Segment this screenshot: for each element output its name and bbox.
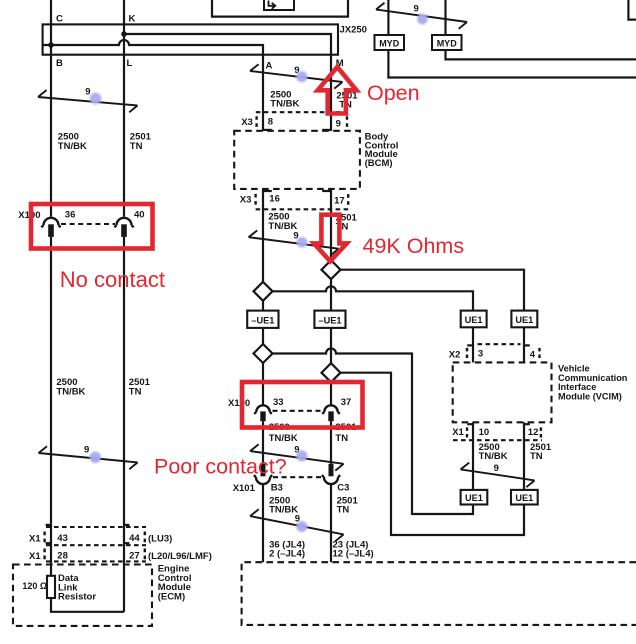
connector strip X3 (BCM bottom) dashed line	[256, 208, 349, 210]
svg-text:Resistor: Resistor	[58, 592, 96, 603]
strip X3 top left edge dashes	[255, 116, 257, 127]
strip X2 right edge dashes	[538, 348, 540, 358]
splice diamond 2500 upper	[254, 282, 273, 301]
svg-text:28: 28	[57, 551, 68, 562]
wire to MYD connector 2	[444, 0, 446, 35]
svg-text:B: B	[56, 58, 63, 69]
wire 2500 diamond to X100-33	[262, 363, 264, 405]
wire 2500 VCIM X1-10 down to UE1	[472, 422, 474, 490]
svg-text:MYD: MYD	[379, 38, 400, 48]
wire M (2501 TN middle) BCM X3 pin 9 foot	[322, 129, 331, 131]
connector X101 pin B3 (male terminal)	[261, 464, 266, 477]
svg-text:(BCM): (BCM)	[365, 158, 393, 169]
svg-text:37: 37	[341, 397, 352, 408]
module ECM dashed box (middle/bottom)	[242, 562, 636, 625]
svg-text:No contact: No contact	[60, 267, 165, 292]
pin foot 27	[124, 542, 129, 544]
wire from MYD 2 to right edge	[446, 50, 636, 59]
connector X100 pin 37 (female arc)	[322, 405, 340, 414]
pin foot X2-3	[467, 344, 473, 346]
dashed mating line X101 B3-C3	[273, 476, 321, 478]
svg-text:TN/BK: TN/BK	[56, 386, 85, 397]
connector strip X3 (BCM top) dashed line	[256, 111, 347, 113]
wire C/B (2500 TN/BK left, lower run)	[50, 237, 52, 576]
svg-text:43: 43	[57, 533, 68, 544]
svg-text:17: 17	[334, 195, 345, 206]
svg-text:X101: X101	[233, 483, 256, 494]
wire to MYD connector 1	[387, 0, 389, 35]
2500 branch to UE1 / VCIM X2-3 (hops wire M)	[273, 286, 474, 310]
svg-text:X3: X3	[240, 194, 252, 205]
module BCM dashed box	[234, 131, 360, 189]
svg-text:16: 16	[269, 194, 280, 205]
wire 2500 UE1 to VCIM X2-3	[472, 327, 474, 362]
svg-text:C3: C3	[337, 483, 349, 494]
svg-text:3: 3	[478, 349, 483, 360]
wire 2500 X101-B3 to ECM	[262, 484, 264, 562]
pin foot X1-10	[467, 423, 473, 425]
svg-text:L: L	[127, 58, 133, 69]
strip X1 (VCIM) right edge dashes	[540, 427, 542, 437]
wire from MYD 1 to right edge	[388, 50, 636, 78]
connector X100 pin 33 (male terminal)	[260, 411, 265, 421]
svg-text:TN/BK: TN/BK	[270, 99, 299, 110]
twisted pair symbol (middle pair, above ECM)	[250, 509, 344, 541]
wire 2500 diamond to -UE1	[262, 301, 264, 311]
svg-text:TN/BK: TN/BK	[58, 141, 87, 152]
svg-text:9: 9	[414, 4, 419, 15]
wire 2501 X101-C3 to ECM	[330, 484, 332, 562]
splice diamond 2500 lower	[254, 344, 273, 363]
splice diamond 2501 upper	[322, 260, 341, 279]
connector UE1 (2501, lower) box	[511, 490, 538, 505]
svg-text:TN: TN	[337, 505, 350, 516]
connector strip X1 row 43/44 top dashed line	[46, 526, 146, 528]
highlight dot (middle pair above X101)	[295, 449, 308, 462]
svg-text:X100: X100	[228, 398, 250, 409]
wire 2501 diamond to -UE1	[330, 279, 332, 310]
junction dot wire L / upper bar	[121, 31, 127, 37]
svg-text:X1: X1	[29, 534, 41, 545]
connector X100 pin 40 (male terminal)	[121, 224, 127, 237]
connector MYD 1 box	[375, 35, 405, 50]
svg-text:K: K	[129, 14, 136, 25]
svg-text:12: 12	[528, 427, 539, 438]
top box inner arrow mark	[269, 1, 276, 9]
wire 2501 below -UE1	[330, 328, 332, 363]
twisted pair symbol (middle pair, below BCM)	[249, 230, 339, 255]
connector strip X1 row 28/27 middle dashed line	[46, 544, 146, 546]
svg-text:UE1: UE1	[515, 493, 533, 503]
svg-text:49K Ohms: 49K Ohms	[363, 234, 465, 258]
top right box corner (cut off)	[628, 0, 636, 20]
wire K/L (2501 TN left, lower run)	[123, 237, 125, 612]
highlight dot (left lower pair)	[89, 451, 102, 464]
svg-text:4: 4	[530, 349, 536, 360]
svg-text:8: 8	[268, 117, 273, 128]
wire 2501 VCIM X1-12 down to UE1	[523, 422, 525, 490]
svg-text:Open: Open	[367, 81, 420, 105]
pin foot 17	[322, 190, 331, 192]
svg-text:TN: TN	[530, 451, 543, 462]
svg-text:X3: X3	[241, 117, 253, 128]
ECM box (left, with data link resistor)	[13, 565, 152, 626]
connector X100 pin 37 (male terminal)	[328, 411, 333, 421]
2500 branch to VCIM X1-10 loop (hops wire 2501)	[273, 349, 474, 514]
2501 branch to UE1 / VCIM X2-4	[341, 270, 525, 311]
wire A (2500 TN/BK middle) BCM X3 pin 8 foot	[263, 129, 272, 131]
twisted pair symbol (MYD wires)	[376, 3, 467, 29]
svg-text:TN/BK: TN/BK	[479, 451, 508, 462]
twisted pair symbol (middle pair, upper)	[250, 64, 343, 88]
dashed mating line X100 36-40	[61, 223, 115, 225]
svg-text:B3: B3	[271, 483, 283, 494]
connector strip X2 dashed line	[478, 343, 521, 345]
splice pack JX250 outline	[43, 24, 338, 54]
svg-text:UE1: UE1	[465, 315, 483, 325]
pin foot X2-4	[524, 344, 530, 346]
JX250 lower bus bar (2500) continuing down as wire A	[43, 40, 263, 131]
svg-text:A: A	[266, 61, 273, 72]
svg-text:Poor contact?: Poor contact?	[154, 454, 287, 478]
svg-text:9: 9	[336, 119, 341, 130]
pin foot 28	[46, 542, 51, 544]
svg-text:2 (–JL4): 2 (–JL4)	[269, 548, 305, 559]
svg-text:(ECM): (ECM)	[158, 592, 185, 603]
pin foot 43	[46, 524, 51, 526]
strip X2 left edge dashes	[466, 348, 468, 358]
JX250 upper bus bar (2501) continuing down as wire M	[124, 34, 331, 131]
highlight dot (MYD pair)	[416, 13, 428, 25]
connector strip X1 (VCIM) dashed line	[453, 439, 542, 441]
wire 2501 UE1 to VCIM X2-4	[523, 327, 525, 362]
pin foot 44	[124, 524, 129, 526]
dashed mating line X100 33-37	[273, 410, 323, 412]
connector UE1 (2500, upper) box	[461, 311, 487, 328]
svg-text:120 Ω: 120 Ω	[22, 581, 47, 591]
annotation red up arrow (open)	[318, 67, 357, 114]
strip X1 right edge dashes	[144, 532, 146, 560]
svg-text:(L20/L96/LMF): (L20/L96/LMF)	[148, 551, 212, 562]
svg-text:36: 36	[65, 209, 76, 220]
wire 2501 diamond to X100-37	[330, 382, 332, 405]
svg-text:X2: X2	[449, 349, 461, 360]
svg-text:44: 44	[129, 533, 140, 544]
strip X1 (VCIM) left edge dashes	[466, 427, 468, 437]
svg-text:9: 9	[84, 444, 89, 455]
svg-text:TN: TN	[335, 433, 348, 444]
strip X3 top right edge dashes	[346, 116, 348, 127]
svg-text:JX250: JX250	[340, 25, 367, 36]
wire 2500 from BCM X3 pin 16 down to splice diamond	[262, 189, 264, 282]
connector strip X1 row 28/27 bottom dashed line	[46, 560, 146, 562]
connector MYD 2 box	[432, 35, 462, 50]
wire 2500 left through data link resistor to loop bottom	[51, 598, 124, 612]
connector X100 pin 36 (female arc)	[41, 218, 60, 227]
connector X100 pin 33 (female arc)	[254, 405, 272, 414]
svg-text:UE1: UE1	[465, 493, 483, 503]
connector X101 pin C3 (male terminal)	[329, 464, 334, 477]
svg-text:X1: X1	[452, 427, 464, 438]
strip X1 left edge dashes	[43, 532, 45, 560]
2501 branch to VCIM X1-12 loop	[341, 373, 525, 535]
strip X3 bottom left edge dashes	[254, 194, 256, 205]
svg-text:–UE1: –UE1	[251, 315, 274, 325]
wire 2500 below -UE1	[262, 328, 264, 344]
annotation red down arrow (49K ohms)	[314, 215, 347, 262]
junction dot wire B / lower bar	[48, 42, 54, 48]
svg-text:–UE1: –UE1	[319, 315, 342, 325]
twisted pair symbol (VCIM pair)	[461, 463, 535, 488]
module VCIM dashed box	[453, 362, 552, 422]
wire C/B (2500 TN/BK left, upper run)	[50, 0, 52, 217]
svg-text:27: 27	[129, 551, 140, 562]
svg-text:UE1: UE1	[515, 315, 533, 325]
connector X100 pin 40 (female arc)	[114, 218, 133, 227]
connector -UE1 (2500) box	[247, 311, 278, 328]
strip X3 bottom right edge dashes	[347, 194, 349, 205]
svg-text:TN: TN	[129, 386, 142, 397]
wire 2500 X100-33 to X101-B3	[262, 421, 264, 464]
twisted pair symbol (left pair, upper)	[38, 90, 138, 112]
annotation red box (X100 36/40 - no contact)	[31, 204, 153, 249]
svg-text:9: 9	[494, 463, 499, 474]
connector X101 pin B3 (female cup)	[254, 475, 272, 484]
pin foot 16	[263, 190, 272, 192]
connector UE1 (2501, upper) box	[511, 311, 537, 328]
svg-text:MYD: MYD	[437, 38, 458, 48]
svg-text:X1: X1	[29, 551, 41, 562]
svg-text:33: 33	[273, 397, 284, 408]
twisted pair symbol (middle pair, above X101)	[250, 444, 344, 470]
svg-text:C: C	[56, 14, 63, 25]
highlight dot (middle mid pair)	[296, 236, 308, 248]
connector X100 pin 36 (male terminal)	[48, 224, 54, 237]
wire K/L (2501 TN left, upper run)	[123, 0, 125, 217]
svg-text:Module (VCIM): Module (VCIM)	[558, 392, 622, 402]
svg-text:12 (–JL4): 12 (–JL4)	[333, 548, 374, 559]
wire 2501 X100-37 to X101-C3	[330, 421, 332, 464]
data link resistor body	[47, 576, 55, 598]
highlight dot (middle lower pair)	[295, 520, 308, 533]
svg-text:40: 40	[134, 210, 145, 221]
connector X101 pin C3 (female cup)	[322, 475, 340, 484]
pin foot X1-12	[524, 423, 530, 425]
highlight dot (middle upper pair)	[295, 70, 308, 83]
top box inner connector cavity	[264, 0, 294, 10]
svg-text:TN: TN	[130, 141, 143, 152]
svg-text:TN/BK: TN/BK	[269, 433, 298, 444]
top box (DLC, cut off at top)	[212, 0, 348, 17]
svg-text:(LU3): (LU3)	[148, 534, 172, 545]
connector UE1 (2500, lower) box	[461, 490, 488, 505]
twisted pair symbol (left pair, lower)	[39, 446, 138, 469]
svg-text:10: 10	[479, 427, 490, 438]
splice diamond 2501 lower	[322, 363, 341, 382]
annotation red box (X100 33/37 - poor contact)	[242, 382, 363, 428]
highlight dot (left upper pair)	[89, 92, 102, 105]
connector -UE1 (2501) box	[314, 311, 345, 328]
wire 2501 from BCM X3 pin 17 down to splice diamond	[330, 189, 332, 260]
